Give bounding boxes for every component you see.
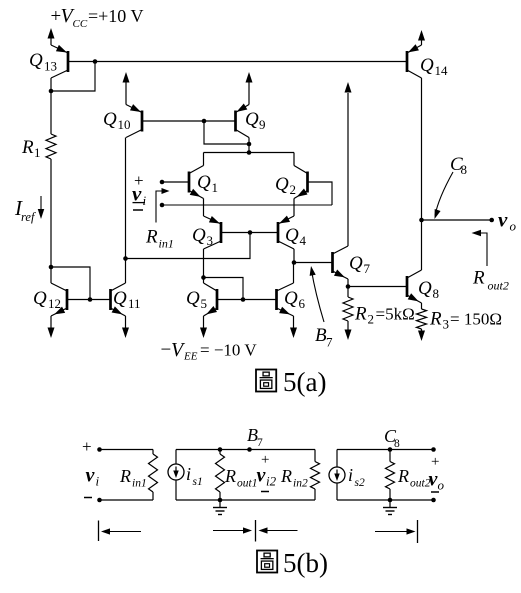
svg-text:ref: ref [21,210,36,224]
svg-text:3: 3 [207,233,214,248]
svg-text:5(b): 5(b) [283,548,328,578]
svg-text:7: 7 [326,335,333,350]
svg-text:9: 9 [259,117,266,132]
svg-text:i: i [186,464,191,484]
svg-text:Q: Q [245,109,259,130]
svg-text:7: 7 [364,261,371,276]
svg-text:=+10 V: =+10 V [88,6,143,26]
svg-text:v: v [132,182,142,206]
svg-text:1: 1 [34,145,41,160]
svg-text:v: v [86,465,96,487]
svg-text:8: 8 [461,162,468,177]
svg-text:+: + [82,437,92,456]
svg-text:Q: Q [418,278,432,299]
svg-text:Q: Q [192,225,206,246]
svg-text:Q: Q [29,50,43,71]
svg-text:Q: Q [275,174,289,195]
svg-text:R: R [224,466,236,486]
svg-text:5: 5 [201,296,208,311]
svg-text:i: i [348,465,353,485]
svg-text:11: 11 [128,296,141,311]
svg-text:7: 7 [257,437,263,449]
svg-text:in1: in1 [159,237,174,251]
svg-text:4: 4 [300,233,307,248]
svg-text:R: R [354,304,367,325]
svg-text:R: R [119,466,131,486]
svg-text:Q: Q [420,55,434,76]
svg-text:R: R [472,268,485,289]
svg-text:Q: Q [197,172,211,193]
svg-text:CC: CC [73,18,88,30]
svg-text:R: R [429,309,442,330]
svg-text:i: i [143,193,147,208]
svg-text:6: 6 [299,296,306,311]
svg-text:R: R [21,137,34,158]
svg-text:2: 2 [290,182,297,197]
svg-text:Q: Q [349,253,363,274]
svg-text:Q: Q [285,225,299,246]
svg-text:in1: in1 [132,478,147,490]
svg-text:o: o [438,478,445,493]
svg-text:5(a): 5(a) [283,367,326,397]
svg-text:= 150Ω: = 150Ω [450,310,502,329]
svg-text:R: R [280,466,292,486]
svg-text:2: 2 [368,312,375,327]
svg-text:s1: s1 [193,476,203,488]
svg-text:= −10 V: = −10 V [200,341,257,360]
svg-text:v: v [257,465,267,487]
svg-text:o: o [510,219,517,234]
svg-text:s2: s2 [355,477,365,489]
svg-text:Q: Q [113,288,127,309]
svg-text:=5kΩ: =5kΩ [376,305,415,324]
svg-text:i2: i2 [266,474,277,489]
svg-text:EE: EE [183,351,198,363]
svg-text:Q: Q [33,288,47,309]
svg-text:10: 10 [118,117,131,132]
svg-text:3: 3 [443,317,450,332]
svg-text:13: 13 [44,59,57,74]
svg-text:8: 8 [433,286,440,301]
svg-text:Q: Q [103,109,117,130]
svg-text:R: R [397,466,409,486]
svg-text:1: 1 [212,180,219,195]
svg-text:out2: out2 [488,279,509,293]
svg-text:in2: in2 [293,478,308,490]
svg-text:R: R [145,227,158,248]
svg-text:8: 8 [394,438,400,450]
svg-text:−: − [161,340,172,361]
svg-text:14: 14 [435,63,449,78]
svg-text:out1: out1 [237,478,257,490]
svg-text:v: v [498,208,508,232]
svg-text:Q: Q [186,288,200,309]
svg-text:Q: Q [284,288,298,309]
svg-text:i: i [96,474,100,489]
svg-text:12: 12 [48,296,61,311]
